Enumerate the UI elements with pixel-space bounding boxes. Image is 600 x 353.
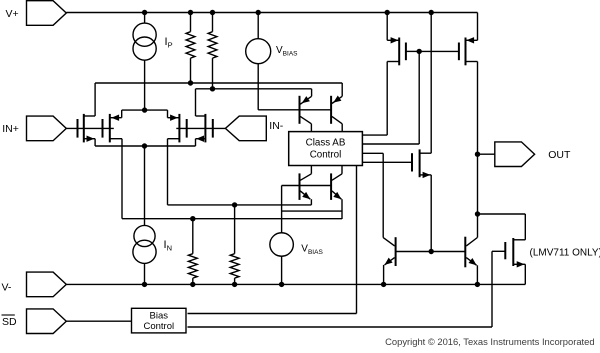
- wire M1 drain to R1 rail: [94, 83, 96, 116]
- transistor M6 pmos upper right: [419, 13, 477, 66]
- node Q7 source/base junction: [429, 249, 434, 254]
- wire M3 drain line y205: [168, 204, 312, 206]
- resistor R3: [188, 219, 197, 285]
- node V+/IP junction: [142, 10, 147, 15]
- label IN: [164, 239, 172, 253]
- svg-text:IN: IN: [164, 239, 172, 253]
- node V-/Q6 emitter junction: [475, 282, 480, 287]
- wire Q2 collector to ClassAB: [341, 124, 343, 132]
- transistor M4 nmos input right: [196, 114, 213, 142]
- wire R1 rail y83: [95, 82, 342, 84]
- svg-text:Bias: Bias: [150, 310, 169, 321]
- svg-text:(LMV711 ONLY): (LMV711 ONLY): [530, 248, 600, 259]
- wire IN+ gate lead: [66, 127, 114, 129]
- svg-text:SD: SD: [2, 316, 17, 328]
- wire M3 source step: [167, 110, 169, 118]
- transistor Q7 nmos driver: [412, 149, 431, 178]
- node R4 top junction: [232, 202, 237, 207]
- pin OUT: [495, 142, 571, 167]
- block Class AB Control: [289, 132, 363, 166]
- wire VBIAS to pnp base rail: [258, 109, 331, 111]
- svg-text:IN+: IN+: [2, 123, 19, 135]
- pin V+: [6, 1, 67, 26]
- wire M1 source to tail: [94, 139, 96, 146]
- wire pmos pair tail rail: [122, 109, 168, 111]
- svg-text:IN-: IN-: [269, 120, 284, 132]
- wire Bias Control to ClassAB: [188, 166, 357, 314]
- current source IP: [133, 13, 156, 111]
- resistor R4: [230, 205, 239, 285]
- node V+/R2 junction: [210, 10, 215, 15]
- svg-text:Control: Control: [310, 150, 342, 161]
- svg-text:VBIAS: VBIAS: [301, 244, 323, 257]
- node Q6 collector junction: [475, 211, 480, 216]
- wire Q1 collector to ClassAB: [310, 124, 312, 132]
- wire npn base rail: [282, 186, 332, 233]
- pin SD: [2, 309, 67, 334]
- svg-text:VBIAS: VBIAS: [276, 45, 298, 58]
- wire Q4 emitter branch to VBIAS line: [282, 210, 342, 212]
- wire M4 drain to R2 rail: [195, 89, 197, 116]
- wire IN- gate lead: [176, 127, 225, 129]
- svg-text:IP: IP: [165, 36, 173, 50]
- transistor M1 nmos input left: [78, 114, 96, 142]
- label IP: [165, 36, 173, 50]
- wire M2 source step: [121, 110, 123, 118]
- voltage source VBIAS upper: [246, 13, 271, 110]
- wire M2 drain line y219: [122, 218, 342, 220]
- label VBIAS upper: [276, 45, 298, 58]
- node V-/IN junction: [142, 282, 147, 287]
- wire V+ rail: [66, 12, 477, 14]
- wire Q7 drain to V+: [430, 13, 432, 154]
- transistor Q8 nmos LMV711: [505, 238, 525, 284]
- svg-text:Control: Control: [143, 321, 174, 332]
- wire ClassAB line4 to Q7 gate: [362, 161, 412, 163]
- svg-text:V+: V+: [6, 8, 19, 20]
- wire nmos pair tail rail: [95, 145, 195, 147]
- wire Q7 source to npn bases: [430, 175, 432, 252]
- voltage source VBIAS lower: [270, 233, 294, 285]
- transistor Q3 npn left: [300, 166, 312, 205]
- pin V-: [2, 272, 67, 297]
- wire Bias Control to Q8 gate: [188, 251, 506, 327]
- label VBIAS lower: [301, 244, 323, 257]
- wire M3 drain down: [167, 139, 169, 205]
- pin IN+: [2, 116, 66, 141]
- transistor Q5 npn mirror left: [383, 237, 395, 284]
- wire M6 drain down to OUT node: [477, 62, 479, 238]
- node IN tail junction: [142, 143, 147, 148]
- transistor M2 pmos input left: [103, 114, 123, 142]
- svg-text:Copyright © 2016, Texas Instru: Copyright © 2016, Texas Instruments Inco…: [385, 336, 594, 347]
- node R3 top junction: [190, 216, 195, 221]
- wire Q8 drain loop: [478, 214, 526, 240]
- wire M4 source to tail: [195, 139, 197, 146]
- resistor R2: [208, 13, 217, 89]
- node V-/Q5 emitter junction: [381, 282, 386, 287]
- transistor Q6 npn output: [465, 237, 477, 285]
- label LMV711 ONLY: [530, 248, 600, 259]
- resistor R1: [186, 13, 195, 84]
- node V-/R3 junction: [190, 282, 195, 287]
- transistor M5 pmos upper left: [387, 13, 419, 66]
- wire tail to IN source: [144, 146, 146, 226]
- svg-text:Class AB: Class AB: [306, 138, 346, 149]
- transistor Q4 npn right: [331, 166, 342, 220]
- wire ClassAB line2 to pmos gates: [362, 51, 419, 144]
- wire V- rail: [66, 283, 525, 285]
- node V-/VBIAS junction: [279, 282, 284, 287]
- transistor M3 pmos input right: [168, 114, 187, 142]
- wire ClassAB line1 to M5 drain: [362, 62, 387, 136]
- current source IN: [133, 225, 156, 284]
- wire R2 rail y89: [196, 88, 312, 90]
- node V+/VBIAS junction: [256, 10, 261, 15]
- block Bias Control: [132, 308, 187, 333]
- svg-text:V-: V-: [2, 282, 12, 294]
- pin IN-: [225, 116, 283, 141]
- node V-/R4 junction: [232, 282, 237, 287]
- node R2 bottom junction: [210, 86, 215, 91]
- wire M2 drain down: [121, 139, 123, 219]
- wire SD to Bias Control: [66, 320, 131, 322]
- node V+/M5 source junction: [385, 10, 390, 15]
- wire OUT lead: [478, 153, 495, 155]
- node pmos gate junction: [417, 49, 422, 54]
- node V+/Q7 drain junction: [429, 10, 434, 15]
- node IP tail junction: [142, 107, 147, 112]
- node R1 bottom junction: [188, 80, 193, 85]
- node OUT junction: [475, 152, 480, 157]
- transistor Q2 pnp right: [331, 83, 342, 124]
- svg-text:OUT: OUT: [548, 149, 571, 161]
- label copyright: [385, 336, 594, 347]
- wire Q5 Q6 base rail: [396, 251, 466, 253]
- node V+/R1 junction: [188, 10, 193, 15]
- transistor Q1 pnp left: [300, 89, 312, 124]
- wire ClassAB line3 to Q5 collector: [362, 153, 383, 237]
